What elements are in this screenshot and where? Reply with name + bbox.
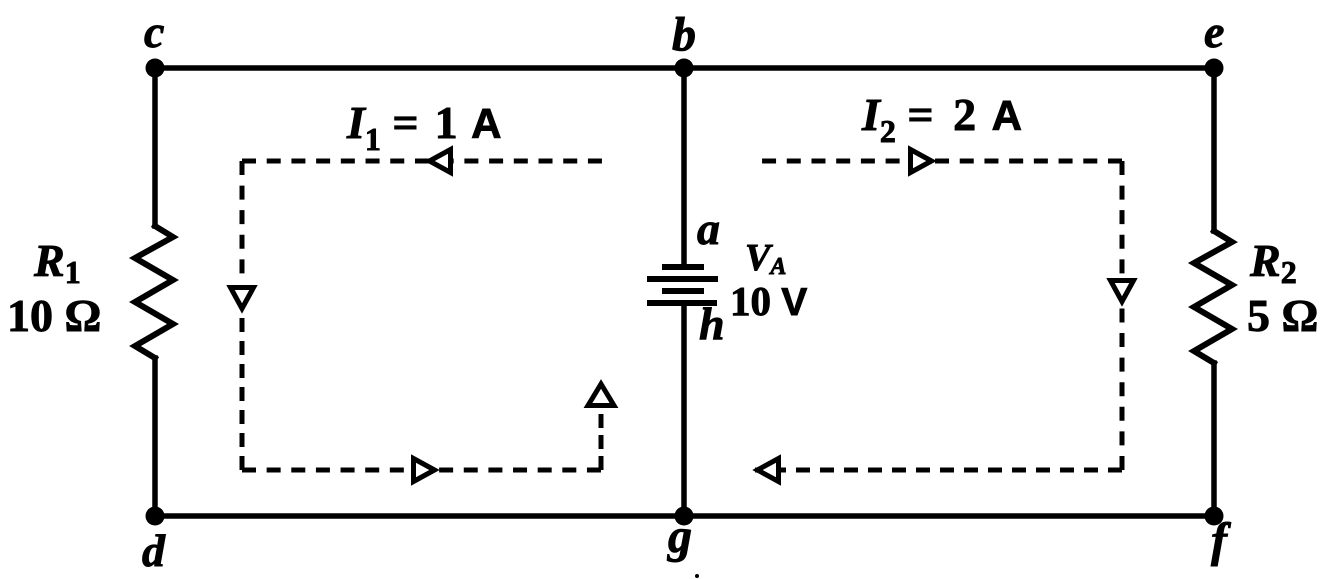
speck below g bbox=[695, 574, 699, 578]
svg-text:d: d bbox=[142, 525, 166, 576]
wire right e-R2 bbox=[1211, 68, 1217, 231]
svg-text:I2 = 2 A: I2 = 2 A bbox=[861, 89, 1022, 149]
node d bbox=[146, 507, 165, 526]
wire R1-d bbox=[152, 358, 158, 516]
label VA bbox=[745, 237, 786, 280]
label node e bbox=[1204, 6, 1224, 57]
label VA value 10 V bbox=[730, 278, 807, 324]
battery U1 plate long upper bbox=[650, 276, 715, 282]
label node d bbox=[142, 525, 166, 576]
wire dashed loop1 left upper bbox=[240, 161, 245, 278]
wire dashed loop2 top bbox=[762, 159, 1122, 164]
wire dashed loop1 right stub bbox=[599, 414, 604, 470]
arrow loop2 right down-pointing bbox=[1111, 281, 1134, 302]
node e bbox=[1205, 59, 1224, 78]
wire dashed loop2 right bbox=[1120, 161, 1125, 470]
svg-text:5 Ω: 5 Ω bbox=[1247, 290, 1318, 341]
label node h bbox=[699, 298, 725, 349]
svg-text:h: h bbox=[699, 298, 725, 349]
arrow loop2 bottom left-pointing bbox=[758, 459, 779, 482]
label R1 value 10 ohm bbox=[7, 290, 101, 341]
wire dashed loop2 bottom bbox=[755, 468, 1122, 473]
battery U1 plate long bottom bbox=[650, 300, 714, 306]
svg-text:a: a bbox=[697, 203, 720, 254]
arrow loop1 left down-pointing bbox=[231, 288, 254, 309]
wire top c-b-e bbox=[155, 65, 1214, 71]
wire dashed loop1 bottom bbox=[242, 468, 601, 473]
svg-text:I1 = 1 A: I1 = 1 A bbox=[346, 97, 501, 157]
label I2 = 2 A bbox=[861, 89, 1022, 149]
arrow loop2 top right-pointing bbox=[911, 150, 932, 173]
arrow loop1 top left-pointing bbox=[430, 150, 451, 173]
label node c bbox=[144, 6, 164, 57]
wire left c-R1 bbox=[152, 68, 158, 226]
arrow loop1 up-pointing bbox=[588, 384, 614, 406]
svg-text:g: g bbox=[667, 510, 692, 563]
wire bottom d-g-f bbox=[155, 513, 1214, 519]
wire R2-f bbox=[1211, 363, 1217, 516]
svg-text:10 Ω: 10 Ω bbox=[7, 290, 101, 341]
label R1 bbox=[33, 235, 81, 290]
svg-text:e: e bbox=[1204, 6, 1224, 57]
battery U1 plate short top bbox=[665, 264, 701, 270]
svg-text:f: f bbox=[1211, 514, 1231, 567]
svg-text:R2: R2 bbox=[1249, 235, 1297, 290]
svg-text:10 V: 10 V bbox=[730, 278, 807, 324]
label node f bbox=[1211, 514, 1231, 567]
wire dashed loop1 left lower bbox=[240, 318, 245, 470]
node c bbox=[146, 59, 165, 78]
wire battery-h-g bbox=[681, 303, 687, 516]
label I1 = 1 A bbox=[346, 97, 501, 157]
label node b bbox=[672, 8, 696, 61]
svg-text:R1: R1 bbox=[33, 235, 81, 290]
svg-text:c: c bbox=[144, 6, 164, 57]
arrow loop1 bottom right-pointing bbox=[414, 459, 435, 482]
node g bbox=[675, 507, 694, 526]
node f bbox=[1205, 507, 1224, 526]
wire dashed loop1 top bbox=[242, 159, 602, 164]
battery U1 plate short lower bbox=[665, 288, 701, 294]
label R2 bbox=[1249, 235, 1297, 290]
label node a bbox=[697, 203, 720, 254]
label R2 value 5 ohm bbox=[1247, 290, 1318, 341]
resistor R2 bbox=[1194, 231, 1232, 363]
wire b-a battery top bbox=[681, 68, 687, 267]
svg-text:VA: VA bbox=[745, 237, 786, 280]
node b bbox=[675, 59, 694, 78]
label node g bbox=[667, 510, 692, 563]
resistor R1 bbox=[135, 226, 173, 358]
svg-text:b: b bbox=[672, 8, 696, 61]
